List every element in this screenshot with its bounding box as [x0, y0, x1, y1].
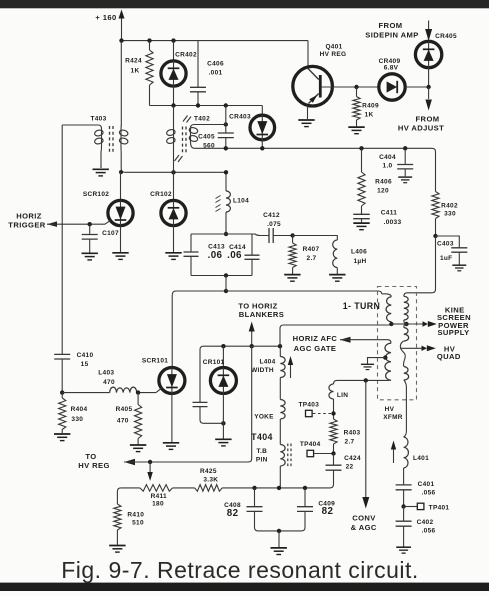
svg-text:2.7: 2.7	[307, 255, 317, 262]
svg-text:C411: C411	[381, 210, 397, 217]
diode CR405	[415, 33, 457, 87]
test point TP404	[300, 441, 336, 457]
svg-text:R407: R407	[303, 246, 320, 253]
capacitor C405	[198, 106, 234, 150]
figure caption	[61, 557, 419, 583]
wire bus B	[150, 103, 263, 107]
diode CR409	[379, 58, 429, 100]
ground C404	[398, 177, 412, 183]
node HORIZ AFC AGC GATE	[293, 334, 391, 353]
svg-text:L401: L401	[413, 455, 429, 462]
inductor L403	[60, 370, 156, 395]
svg-text:CR101: CR101	[203, 359, 225, 366]
svg-text:SCR101: SCR101	[142, 358, 168, 365]
node KINE SCREEN POWER SUPPLY arrow	[407, 305, 472, 337]
svg-text:6.8V: 6.8V	[384, 64, 399, 71]
SCR SCR102	[83, 172, 133, 252]
potentiometer wiper R411	[147, 462, 153, 481]
wire bus F	[200, 344, 282, 350]
test point TP403	[298, 402, 333, 417]
svg-text:R425: R425	[200, 468, 217, 475]
svg-text:CR102: CR102	[150, 191, 172, 198]
resistor R411	[140, 485, 173, 508]
svg-text:C424: C424	[344, 455, 361, 462]
svg-text:15: 15	[81, 361, 89, 368]
svg-text:SIDEPIN AMP: SIDEPIN AMP	[365, 31, 419, 40]
svg-text:TRIGGER: TRIGGER	[8, 220, 46, 229]
capacitor C410	[54, 125, 93, 393]
inductor L401	[391, 437, 429, 468]
inductor YOKE winding	[254, 400, 285, 445]
svg-text:330: 330	[444, 211, 456, 218]
capacitor C409	[297, 488, 335, 531]
svg-text:HORIZ: HORIZ	[16, 211, 42, 220]
svg-text:.075: .075	[267, 221, 281, 228]
inductor L404 WIDTH	[251, 346, 293, 399]
resistor R403	[330, 399, 361, 454]
resistor R405	[116, 390, 142, 444]
svg-text:C401: C401	[418, 481, 435, 488]
svg-text:2.7: 2.7	[345, 439, 355, 446]
wire KINE junction	[391, 322, 408, 326]
ground SCR102	[112, 253, 128, 260]
ground C402	[396, 547, 411, 553]
svg-text:SCR102: SCR102	[83, 191, 109, 198]
svg-text:330: 330	[71, 416, 83, 423]
svg-text:TP404: TP404	[300, 441, 321, 448]
svg-text:XFMR: XFMR	[383, 414, 403, 421]
svg-text:SUPPLY: SUPPLY	[437, 328, 469, 337]
ground R405	[130, 445, 146, 452]
resistor R404	[59, 393, 88, 434]
inductor LIN	[329, 384, 348, 399]
svg-text:R409: R409	[362, 103, 379, 110]
svg-text:YOKE: YOKE	[254, 414, 274, 421]
ground C408 C409	[271, 548, 287, 555]
diode CR402	[161, 41, 197, 106]
capacitor C413	[184, 234, 225, 276]
wire AGC gate branch up	[280, 324, 392, 346]
svg-text:.0033: .0033	[384, 219, 402, 226]
wire +160 top bus	[119, 38, 308, 42]
svg-text:L104: L104	[233, 198, 249, 205]
ground C403	[452, 265, 466, 271]
capacitor C411	[353, 210, 401, 227]
svg-text:C404: C404	[379, 154, 396, 161]
svg-text:1- TURN: 1- TURN	[343, 301, 381, 311]
diode CR101	[203, 346, 237, 438]
svg-text:R402: R402	[441, 203, 458, 210]
svg-text:.001: .001	[209, 70, 223, 77]
power +160 supply arrow	[95, 10, 124, 41]
transformer T404 T.B PIN winding	[251, 432, 291, 488]
svg-text:T404: T404	[251, 432, 273, 442]
ground R404	[54, 434, 70, 441]
transformer HV secondary winding	[400, 296, 408, 437]
svg-text:CR402: CR402	[175, 52, 197, 59]
svg-text:HV REG: HV REG	[320, 51, 347, 58]
ground C411	[353, 223, 369, 230]
svg-text:R411: R411	[151, 493, 167, 500]
svg-text:TO: TO	[85, 452, 96, 461]
svg-text:T403: T403	[90, 116, 106, 123]
svg-text:1K: 1K	[365, 112, 374, 119]
wire bus down to Q401 collector	[307, 41, 309, 67]
svg-text:470: 470	[103, 379, 115, 386]
svg-text:R404: R404	[71, 406, 88, 413]
wire +160 bus down to T403 secondary	[120, 41, 122, 126]
svg-text:C410: C410	[77, 352, 94, 359]
resistor R407	[289, 233, 319, 274]
svg-text:82: 82	[227, 508, 239, 519]
svg-text:T.B: T.B	[256, 448, 267, 455]
svg-text:470: 470	[117, 418, 129, 425]
ground T403 primary	[93, 166, 109, 176]
resistor R409	[353, 85, 379, 127]
svg-text:1uF: 1uF	[440, 255, 452, 262]
svg-text:R403: R403	[344, 430, 361, 437]
svg-text:.056: .056	[422, 490, 436, 497]
capacitor C402	[396, 507, 436, 547]
svg-text:82: 82	[322, 506, 334, 517]
wire bus D	[195, 146, 436, 191]
svg-text:T402: T402	[194, 116, 210, 123]
transformer T402	[166, 106, 226, 173]
wire retrace bus	[172, 276, 381, 295]
ground Q401 emitter	[298, 120, 314, 127]
node HORIZ TRIGGER	[8, 211, 105, 229]
svg-text:C412: C412	[263, 212, 280, 219]
svg-text:120: 120	[377, 188, 389, 195]
transformer T403	[62, 116, 128, 173]
bottom border bar	[0, 583, 489, 591]
node TO HV REG	[78, 346, 251, 470]
svg-text:LIN: LIN	[337, 392, 348, 399]
svg-text:TP401: TP401	[429, 505, 450, 512]
resistor R402	[432, 192, 458, 237]
capacitor C408	[224, 488, 262, 531]
svg-text:BLANKERS: BLANKERS	[239, 310, 284, 319]
node FROM SIDEPIN AMP	[365, 21, 432, 42]
svg-text:HV REG: HV REG	[78, 461, 110, 470]
svg-text:Q401: Q401	[325, 44, 342, 51]
svg-text:C403: C403	[437, 241, 454, 248]
svg-text:TP403: TP403	[298, 402, 319, 409]
svg-text:CR405: CR405	[435, 33, 457, 40]
svg-text:R424: R424	[125, 58, 142, 65]
svg-text:TO HORIZ: TO HORIZ	[238, 301, 277, 310]
node TO HORIZ BLANKERS	[238, 301, 284, 348]
wire SCR anode bus	[119, 170, 226, 174]
svg-text:.056: .056	[422, 528, 436, 535]
svg-text:Fig. 9-7. Retrace resonant cir: Fig. 9-7. Retrace resonant circuit.	[61, 557, 419, 583]
svg-text:AGC GATE: AGC GATE	[294, 344, 337, 353]
svg-text:HORIZ AFC: HORIZ AFC	[293, 334, 338, 343]
capacitor C404	[379, 148, 413, 176]
transformer AGC tertiary winding	[334, 343, 392, 384]
ground C107	[82, 253, 98, 260]
svg-text:L406: L406	[351, 249, 367, 256]
svg-text:1.0: 1.0	[383, 163, 393, 170]
ground winding tap	[361, 355, 388, 369]
ground CR101	[215, 439, 231, 446]
capacitor (unlabeled) beside CR101	[193, 350, 226, 426]
svg-text:CONV: CONV	[352, 514, 376, 523]
wire Q401 base to CR409	[322, 86, 379, 88]
capacitor C406	[190, 41, 224, 106]
capacitor C424	[326, 454, 361, 488]
svg-text:R406: R406	[375, 179, 392, 186]
ground R410	[109, 546, 125, 553]
svg-text:PIN: PIN	[256, 457, 268, 464]
svg-text:FROM: FROM	[379, 21, 403, 30]
ground SCR101	[163, 443, 179, 450]
ground CR102	[165, 253, 181, 260]
wire R411 to R410	[117, 488, 139, 504]
ground R407	[284, 275, 300, 282]
svg-text:1µH: 1µH	[354, 258, 367, 265]
SCR SCR101	[142, 295, 185, 442]
wire C413/C414 bottom bus	[191, 273, 252, 277]
svg-text:C402: C402	[417, 519, 434, 526]
resistor R425	[173, 468, 223, 491]
test point TP401	[401, 503, 449, 511]
ground L406	[329, 275, 345, 282]
HV XFMR dashed box	[378, 287, 417, 422]
svg-text:R410: R410	[127, 512, 144, 519]
svg-text:22: 22	[346, 464, 354, 471]
inductor L104	[216, 170, 250, 234]
svg-text:.06: .06	[227, 250, 242, 261]
svg-text:CR403: CR403	[229, 114, 251, 121]
node HV QUAD arrow	[401, 344, 461, 361]
transistor Q401	[293, 44, 347, 120]
svg-text:+ 160: + 160	[95, 13, 116, 22]
capacitor C414	[227, 234, 259, 276]
svg-text:C405: C405	[198, 134, 215, 141]
svg-text:L404: L404	[259, 359, 275, 366]
wire bottom bus	[222, 486, 330, 490]
svg-text:180: 180	[152, 501, 164, 508]
capacitor C401	[396, 468, 436, 507]
svg-text:R405: R405	[116, 406, 133, 413]
node FROM HV ADJUST	[398, 85, 444, 133]
svg-text:510: 510	[132, 520, 144, 527]
resistor R424	[125, 41, 153, 106]
svg-text:FROM: FROM	[416, 115, 440, 124]
ground R409	[348, 127, 364, 134]
svg-text:C107: C107	[102, 230, 119, 237]
capacitor C403	[433, 234, 467, 265]
svg-text:3.3K: 3.3K	[203, 477, 218, 484]
wire right bus to HV transformer	[404, 236, 436, 296]
svg-text:QUAD: QUAD	[437, 352, 461, 361]
capacitor C107	[82, 222, 119, 253]
resistor R406	[358, 148, 392, 214]
node CONV & AGC arrow	[351, 378, 377, 532]
diode CR403	[229, 114, 274, 149]
svg-text:1K: 1K	[131, 68, 140, 75]
svg-text:.06: .06	[208, 250, 223, 261]
wire C413/C414 top bus	[191, 232, 252, 236]
svg-text:HV: HV	[385, 406, 395, 413]
wire bus B to CR403	[261, 106, 263, 116]
svg-text:L403: L403	[98, 370, 114, 377]
capacitor C412	[252, 212, 293, 243]
top border bar	[0, 0, 489, 8]
diode CR102	[150, 172, 186, 252]
svg-text:HV ADJUST: HV ADJUST	[398, 124, 444, 133]
svg-text:C406: C406	[207, 61, 224, 68]
svg-text:& AGC: & AGC	[351, 523, 377, 532]
transformer 1-TURN winding	[343, 294, 394, 326]
inductor L406	[293, 236, 367, 275]
wire C408 C409 bottom bus	[258, 529, 302, 548]
resistor R410	[114, 504, 144, 545]
svg-text:WIDTH: WIDTH	[251, 367, 274, 374]
